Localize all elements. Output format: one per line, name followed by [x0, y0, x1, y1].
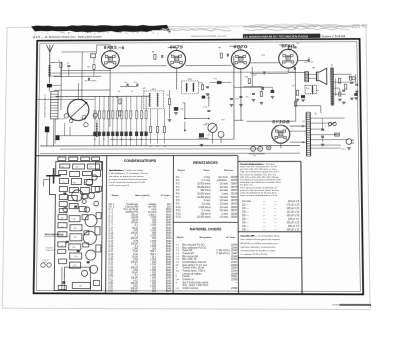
svg-text:R3: R3 — [116, 97, 119, 99]
svg-text:potentiom.: potentiom. — [217, 179, 228, 182]
svg-text:LE MEMORANDUM DU TECHNICIEN-RA: LE MEMORANDUM DU TECHNICIEN-RADIO — [244, 34, 309, 38]
svg-text:10.000 ohms: 10.000 ohms — [197, 183, 211, 185]
svg-text:MATERIEL DIVERS: MATERIEL DIVERS — [190, 227, 222, 231]
svg-text:C16: C16 — [163, 146, 166, 148]
svg-text:21447: 21447 — [231, 262, 238, 264]
svg-text:M.R.B. — 46, Boulevard Voltair: M.R.B. — 46, Boulevard Voltaire (1er) - … — [33, 35, 102, 38]
svg-text:R 13: R 13 — [176, 217, 182, 219]
svg-text:30078: 30078 — [231, 200, 238, 202]
svg-text:R8: R8 — [218, 47, 221, 49]
svg-text:C3: C3 — [124, 82, 127, 84]
svg-text:Exc: Exc — [306, 88, 310, 90]
svg-text:250 ohms: 250 ohms — [200, 214, 211, 216]
svg-text:C14: C14 — [180, 109, 183, 111]
svg-text:CONDENSATEURS: CONDENSATEURS — [124, 159, 157, 163]
svg-text:30076: 30076 — [231, 204, 238, 206]
svg-text:20148: 20148 — [231, 273, 238, 275]
svg-text:4 électrolytiques, 12 céramiqu: 4 électrolytiques, 12 céramique, 10 mica… — [109, 172, 149, 175]
svg-text:Pour ajouter la tension d'util: Pour ajouter la tension d'utilisation on — [240, 186, 278, 189]
svg-text:R 11: R 11 — [176, 210, 181, 212]
svg-text:2° MF 472 kc: 2° MF 472 kc — [216, 253, 231, 255]
svg-text:CH: CH — [176, 279, 180, 281]
svg-text:24045: 24045 — [231, 265, 238, 267]
svg-text:C11: C11 — [72, 247, 75, 249]
svg-text:Spécifications: Spécifications — [109, 169, 125, 172]
svg-text:0,5 még.: 0,5 még. — [202, 204, 211, 206]
svg-text:Circuits d'alimentation.: Circuits d'alimentation. — [240, 163, 265, 166]
svg-text:10.000 ohms: 10.000 ohms — [197, 197, 211, 199]
svg-text:RESISTANCES: RESISTANCES — [193, 161, 218, 165]
svg-text:—: — — [181, 172, 183, 174]
svg-text:30259: 30259 — [231, 180, 238, 182]
svg-text:Tr: Tr — [314, 114, 316, 116]
svg-text:Lampes de cadran.: Lampes de cadran. — [182, 272, 202, 275]
svg-text:C17: C17 — [206, 98, 209, 100]
svg-text:23063: 23063 — [231, 268, 238, 270]
svg-text:21562: 21562 — [231, 288, 238, 290]
svg-text:Repère: Repère — [178, 169, 186, 172]
svg-text:Etablissements CHAREL, Apparei: Etablissements CHAREL, Appareil — [192, 35, 227, 38]
svg-text:var. 490: var. 490 — [148, 206, 157, 209]
svg-text:R7: R7 — [167, 95, 169, 97]
svg-text:—: — — [205, 240, 207, 242]
svg-text:N° Cadre: N° Cadre — [226, 236, 236, 239]
svg-text:C8: C8 — [75, 166, 77, 168]
svg-text:C21: C21 — [261, 55, 265, 57]
svg-text:C6: C6 — [62, 166, 64, 168]
svg-text:et 2G service pour G.: et 2G service pour G. — [109, 184, 130, 187]
svg-text:teurs étaient d'avant guerre d: teurs étaient d'avant guerre des moyens — [240, 238, 280, 241]
svg-text:Haut-parleur 17 cm. exc.: Haut-parleur 17 cm. exc. — [182, 264, 208, 267]
svg-text:200 —: 200 — — [242, 215, 250, 217]
svg-text:R3: R3 — [118, 91, 120, 93]
svg-text:110 volts: 110 volts — [242, 200, 252, 203]
svg-text:C1: C1 — [58, 60, 60, 62]
svg-text:Valeur: Valeur — [203, 169, 209, 172]
svg-text:2.000 ohms: 2.000 ohms — [199, 207, 212, 209]
svg-text:Transfo sortie, 7.000 o.: Transfo sortie, 7.000 o. — [182, 269, 206, 272]
svg-text:les réglages FL13 et FL14c.: les réglages FL13 et FL14c. — [240, 253, 268, 256]
svg-text:C15: C15 — [73, 237, 76, 239]
svg-text:Valeur (spécif.): Valeur (spécif.) — [135, 194, 150, 197]
svg-text:6K7S: 6K7S — [170, 44, 184, 49]
svg-text:C10: C10 — [74, 256, 77, 258]
svg-text:façon suivante (transformateur: façon suivante (transformateur n°2-a) : — [240, 194, 278, 197]
svg-text:245 —: 245 — — [242, 229, 250, 231]
svg-text:C16: C16 — [72, 219, 75, 221]
svg-text:T2: T2 — [61, 246, 63, 248]
svg-text:195 μF ± 25: 195 μF ± 25 — [287, 208, 300, 210]
svg-text:fos 2 pour les modèles 110, 22: fos 2 pour les modèles 110, 220, 6,3, — [240, 173, 277, 176]
svg-text:1 watt: 1 watt — [222, 192, 229, 195]
svg-text:F: F — [325, 126, 326, 128]
svg-text:tage successivement équipé ave: tage successivement équipé avec trans- — [240, 170, 280, 173]
svg-text:On utilisera les principaux él: On utilisera les principaux éléments fac… — [240, 178, 282, 181]
svg-text:1/2 watt: 1/2 watt — [220, 182, 228, 185]
svg-text:1/2 watt: 1/2 watt — [220, 199, 228, 202]
svg-text:opération séparées, et détermi: opération séparées, et déterminées — [240, 245, 275, 248]
svg-text:Fusible: Fusible — [182, 276, 190, 278]
svg-text:pourra à celle du réseau, plac: pourra à celle du réseau, placer les bar… — [240, 189, 279, 192]
svg-text:455 Kc: 455 Kc — [351, 23, 369, 30]
svg-text:R1: R1 — [88, 67, 90, 69]
svg-text:30067: 30067 — [231, 183, 238, 185]
svg-text:C.32: C.32 — [108, 291, 114, 293]
svg-text:aux trous: aux trous — [218, 176, 228, 179]
svg-text:R 12: R 12 — [176, 214, 182, 216]
svg-text:1/2 watt: 1/2 watt — [220, 209, 228, 212]
svg-text:C10: C10 — [93, 139, 96, 141]
svg-text:1/2 watt: 1/2 watt — [220, 216, 228, 219]
svg-text:Transfo MF: Transfo MF — [182, 252, 194, 255]
svg-text:1 watt: 1 watt — [222, 213, 229, 216]
svg-text:21956: 21956 — [231, 279, 238, 281]
svg-text:Condensat.: Condensat. — [126, 203, 138, 206]
svg-text:230 μF ± 25: 230 μF ± 25 — [287, 215, 300, 217]
svg-text:260 μF ± 8: 260 μF ± 8 — [288, 226, 300, 228]
svg-text:1° MF 472 kc: 1° MF 472 kc — [216, 250, 231, 252]
svg-text:Bloc oscillateur PO-GO: Bloc oscillateur PO-GO — [182, 246, 206, 249]
svg-text:22445: 22445 — [231, 248, 238, 250]
svg-text:MF: MF — [143, 88, 146, 90]
svg-text:Bloc d'accord PO-GO: Bloc d'accord PO-GO — [182, 244, 204, 247]
svg-text:(PO) ; appel. 1.000 ohms.: (PO) ; appel. 1.000 ohms. — [182, 285, 209, 287]
svg-text:—: — — [141, 198, 143, 200]
svg-text:C18: C18 — [203, 106, 206, 108]
svg-text:ment dans des références norma: ment dans des références normales dans — [240, 181, 281, 184]
svg-text:265 μF ± 25: 265 μF ± 25 — [287, 229, 300, 231]
svg-text:1/2 watt: 1/2 watt — [220, 202, 228, 205]
svg-text:C1: C1 — [61, 236, 63, 238]
svg-text:1 még.: 1 még. — [203, 177, 210, 179]
svg-text:115 —: 115 — — [242, 205, 249, 207]
svg-text:1/2 watt: 1/2 watt — [220, 186, 228, 189]
svg-text:130 —: 130 — — [242, 212, 250, 214]
svg-text:R12: R12 — [253, 75, 256, 77]
svg-text:C26: C26 — [307, 58, 310, 60]
svg-text:1/2 watt: 1/2 watt — [220, 196, 228, 199]
svg-text:1/2 watt: 1/2 watt — [220, 206, 228, 209]
svg-text:C17: C17 — [79, 285, 82, 287]
svg-text:Cassettes MF.: Cassettes MF. — [240, 235, 255, 238]
svg-text:30070: 30070 — [231, 187, 238, 189]
svg-text:22444: 22444 — [231, 245, 238, 247]
svg-text:0,1 még.: 0,1 még. — [202, 180, 211, 182]
svg-text:30057: 30057 — [231, 190, 238, 192]
svg-text:8047: 8047 — [166, 291, 172, 293]
svg-text:CADRE ANTIPARASITE: CADRE ANTIPARASITE — [43, 94, 46, 118]
svg-text:MF: MF — [73, 182, 76, 184]
svg-text:1/2 watt: 1/2 watt — [220, 189, 228, 192]
svg-text:C5: C5 — [131, 91, 133, 93]
svg-text:C18: C18 — [206, 134, 209, 136]
svg-text:22447: 22447 — [231, 253, 238, 255]
svg-text:N° Cadre: N° Cadre — [161, 194, 171, 197]
svg-text:Octobre n° B-09.303: Octobre n° B-09.303 — [321, 35, 345, 38]
svg-text:—: — — [114, 198, 116, 200]
svg-text:aux autres au papier ou aux va: aux autres au papier ou aux valeurs — [109, 175, 144, 178]
svg-text:130 μF ± 8: 130 μF ± 8 — [288, 201, 300, 203]
svg-text:C2: C2 — [89, 166, 91, 168]
svg-text:MF1: MF1 — [152, 89, 156, 91]
svg-text:C4a: C4a — [73, 228, 76, 230]
svg-text:Philips 6,3V: Philips 6,3V — [46, 250, 57, 252]
svg-text:Transfo d'alim. 65 mil.: Transfo d'alim. 65 mil. — [182, 267, 205, 270]
svg-text:30156: 30156 — [231, 214, 238, 216]
svg-text:125 —: 125 — — [242, 208, 250, 210]
svg-text:20561: 20561 — [231, 276, 238, 278]
svg-text:Sect.: Sect. — [341, 148, 346, 151]
svg-text:en outre, la tension d'essai d: en outre, la tension d'essai d'usuel pou… — [109, 178, 148, 181]
svg-text:0,1 még.: 0,1 még. — [202, 210, 211, 212]
svg-text:20.000 ohms: 20.000 ohms — [197, 217, 211, 219]
svg-text:Jeu 3 boutons de marche: Jeu 3 boutons de marche — [182, 281, 209, 284]
svg-text:—: — — [228, 172, 230, 174]
svg-text:F et M, la tension d'essai pou: F et M, la tension d'essai pour P et M, — [109, 181, 146, 184]
svg-text:240 —: 240 — — [242, 226, 250, 228]
svg-text:170 μF ± 25: 170 μF ± 25 — [287, 205, 300, 207]
svg-text:C32: C32 — [302, 121, 305, 123]
svg-text:R6: R6 — [156, 146, 158, 148]
svg-text:22449: 22449 — [231, 259, 238, 261]
svg-text:25.000 ohms: 25.000 ohms — [197, 193, 211, 195]
svg-text:23164: 23164 — [231, 271, 238, 273]
svg-text:1 még.: 1 még. — [203, 200, 210, 202]
svg-text:Tr: Tr — [331, 65, 333, 67]
svg-text:30067: 30067 — [231, 197, 238, 199]
svg-text:30069: 30069 — [231, 217, 238, 219]
svg-text:30358: 30358 — [231, 177, 238, 179]
svg-text:variable: variable — [148, 203, 157, 206]
svg-text:C28: C28 — [316, 90, 319, 92]
svg-text:C12: C12 — [102, 139, 105, 141]
svg-text:Repère: Repère — [112, 194, 120, 197]
svg-text:R9: R9 — [245, 77, 248, 79]
svg-text:C20: C20 — [245, 96, 248, 98]
svg-text:R5: R5 — [152, 51, 155, 53]
svg-text:Condensateur d'accord: Condensateur d'accord — [182, 261, 207, 264]
svg-text:245, 125 et 130, 200, 245, 250: 245, 125 et 130, 200, 245, 250, 260 pér. — [240, 176, 280, 179]
svg-text:300 ohms: 300 ohms — [200, 190, 211, 192]
svg-text:Tr: Tr — [176, 267, 178, 270]
svg-text:—: — — [206, 172, 208, 174]
svg-text:R9: R9 — [183, 103, 185, 105]
svg-text:C2: C2 — [67, 63, 69, 65]
svg-text:30072: 30072 — [231, 210, 238, 212]
svg-text:C4: C4 — [61, 218, 63, 220]
svg-text:C22: C22 — [235, 98, 238, 100]
svg-text:22448: 22448 — [231, 256, 238, 258]
svg-text:—: — — [179, 240, 181, 242]
svg-text:R 10: R 10 — [176, 207, 182, 209]
svg-text:Tolérance: Tolérance — [224, 169, 234, 172]
svg-text:C26: C26 — [291, 85, 294, 87]
svg-text:30062: 30062 — [231, 207, 238, 209]
svg-text:250 μF ± 25: 250 μF ± 25 — [287, 222, 300, 224]
svg-text:C25: C25 — [296, 43, 299, 45]
svg-text:C15: C15 — [149, 146, 152, 148]
svg-text:230 —: 230 — — [242, 222, 250, 224]
svg-text:C9: C9 — [61, 227, 63, 229]
svg-text:215 μF ± 25: 215 μF ± 25 — [287, 212, 300, 214]
svg-text:Bloc accord HF: Bloc accord HF — [182, 255, 198, 258]
svg-text:Bloc oscill. HF: Bloc oscill. HF — [182, 259, 197, 261]
svg-text:22446: 22446 — [231, 250, 238, 252]
svg-text:245 μF ± 2: 245 μF ± 2 — [288, 219, 300, 221]
svg-text:Chassis nu.: Chassis nu. — [182, 279, 194, 281]
svg-text:seulement que les bandes à cho: seulement que les bandes à choisir — [240, 249, 275, 252]
svg-text:R11: R11 — [221, 119, 224, 121]
svg-text:C19: C19 — [213, 78, 216, 80]
svg-text:MF (472ke ou 455ke) rencontrée: MF (472ke ou 455ke) rencontrées par — [240, 242, 278, 245]
svg-text:pér. 110, 130, 220, 245 volts,: pér. 110, 130, 220, 245 volts, ce mon- — [240, 168, 277, 171]
svg-text:2x8 μF: 2x8 μF — [131, 291, 139, 293]
svg-text:Cadre MF: Cadre MF — [182, 249, 193, 252]
svg-text:—: — — [164, 198, 166, 200]
svg-text:50.000 ohms: 50.000 ohms — [197, 187, 211, 189]
svg-text:Cordon secteur.: Cordon secteur. — [182, 287, 199, 290]
svg-text:30165: 30165 — [231, 193, 238, 195]
svg-text:rettes de distribution de tens: rettes de distribution de tension de la — [240, 192, 277, 195]
svg-text:220 —: 220 — — [242, 219, 250, 221]
svg-text:R10: R10 — [205, 123, 209, 125]
